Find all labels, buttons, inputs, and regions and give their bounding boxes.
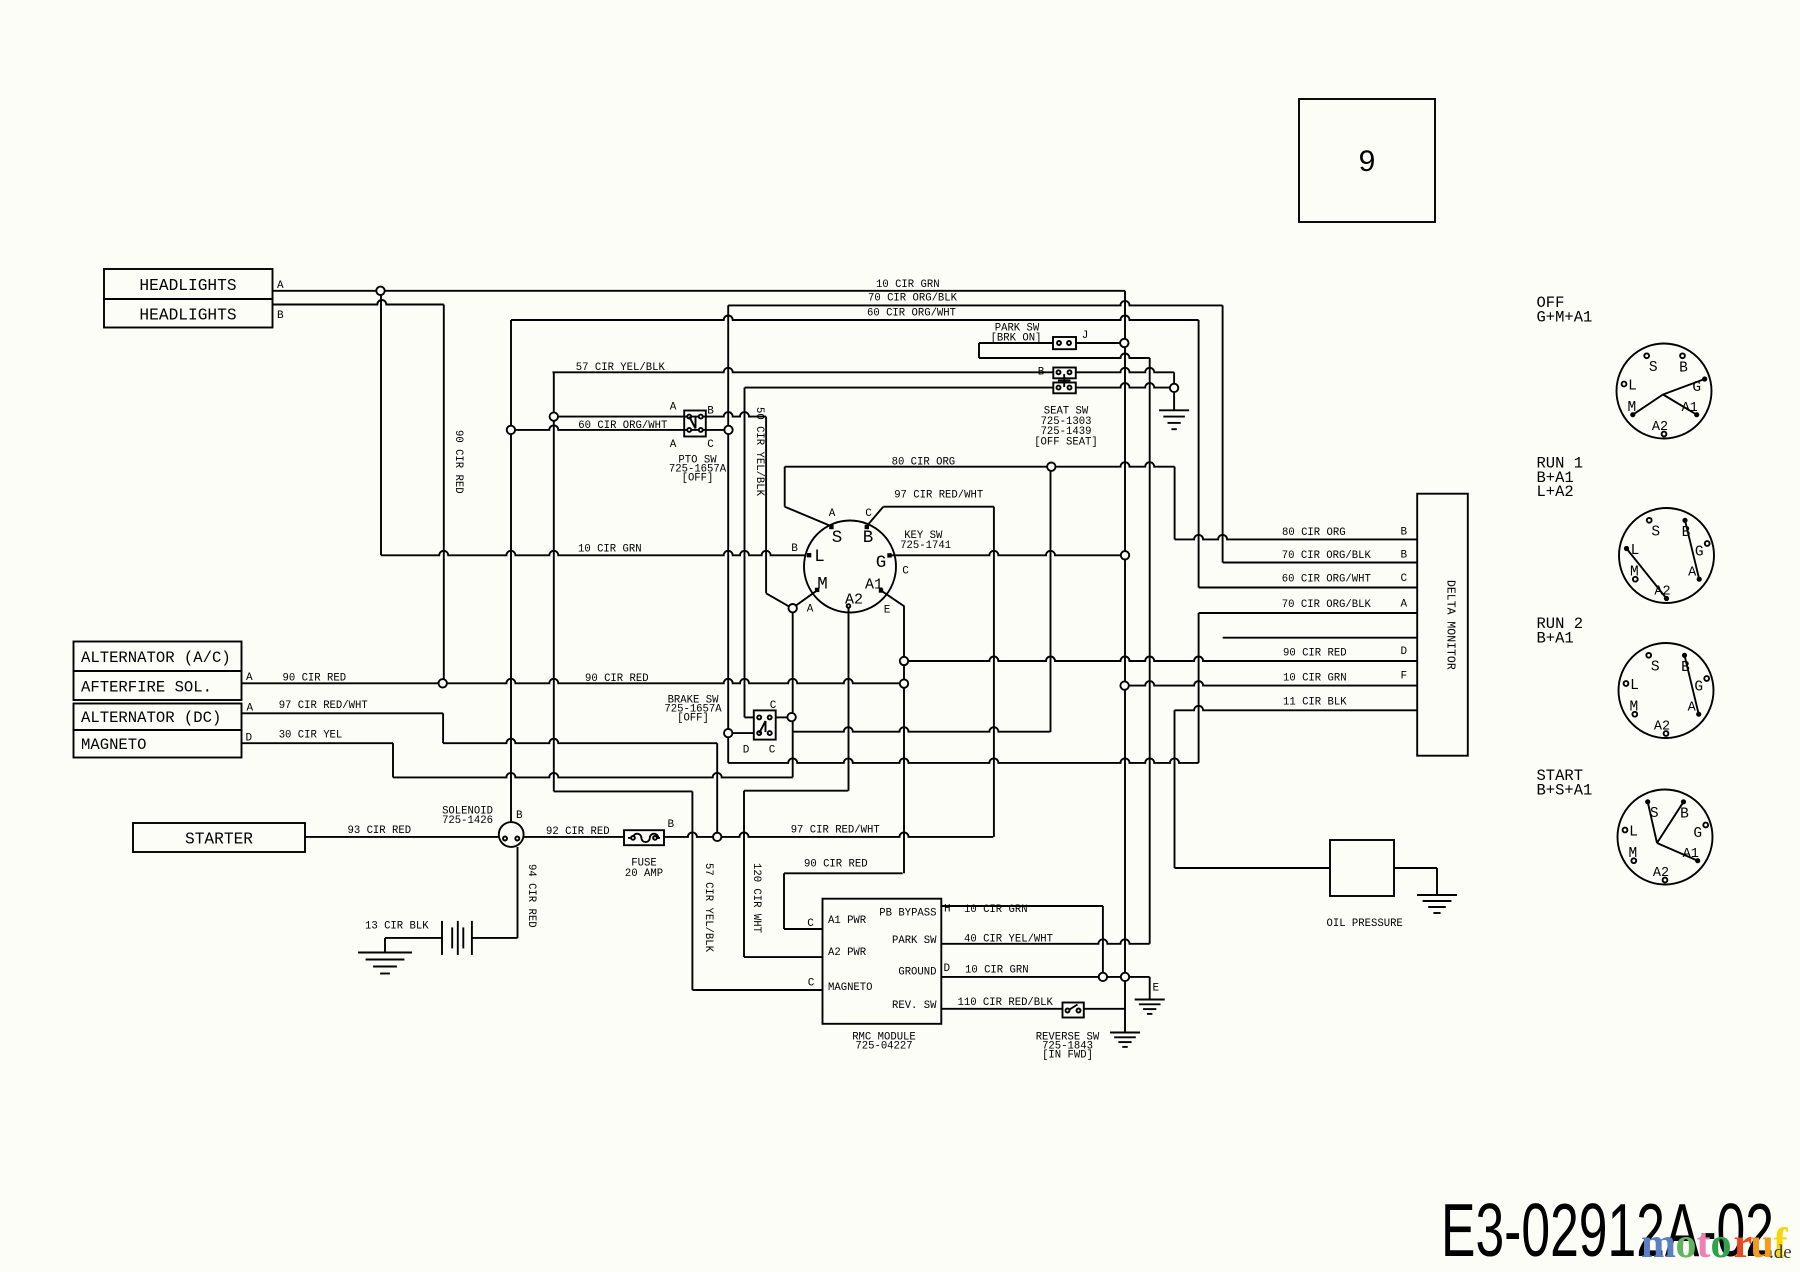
svg-text:D: D bbox=[743, 745, 750, 757]
svg-text:F: F bbox=[1401, 671, 1408, 683]
svg-text:C: C bbox=[769, 745, 776, 757]
svg-text:C: C bbox=[902, 566, 909, 578]
svg-text:11 CIR BLK: 11 CIR BLK bbox=[1283, 697, 1347, 709]
svg-text:S: S bbox=[1650, 806, 1659, 822]
svg-text:90 CIR RED: 90 CIR RED bbox=[283, 673, 347, 685]
svg-text:97 CIR RED/WHT: 97 CIR RED/WHT bbox=[894, 490, 983, 502]
svg-text:A: A bbox=[277, 280, 284, 292]
svg-text:725-1741: 725-1741 bbox=[900, 540, 951, 552]
svg-text:80 CIR ORG: 80 CIR ORG bbox=[1282, 527, 1346, 539]
svg-text:50 CIR YEL/BLK: 50 CIR YEL/BLK bbox=[753, 407, 765, 497]
svg-text:A2: A2 bbox=[1654, 720, 1670, 735]
svg-text:A: A bbox=[247, 703, 254, 715]
svg-text:L+A2: L+A2 bbox=[1537, 483, 1574, 501]
svg-text:40 CIR YEL/WHT: 40 CIR YEL/WHT bbox=[964, 934, 1053, 946]
svg-text:C: C bbox=[807, 918, 814, 930]
svg-text:AFTERFIRE SOL.: AFTERFIRE SOL. bbox=[81, 679, 212, 697]
svg-text:o: o bbox=[1711, 1221, 1732, 1267]
svg-text:L: L bbox=[814, 547, 825, 567]
svg-text:DELTA MONITOR: DELTA MONITOR bbox=[1444, 580, 1457, 670]
svg-text:120 CIR WHT: 120 CIR WHT bbox=[750, 863, 762, 933]
svg-text:B: B bbox=[277, 310, 284, 322]
svg-text:M: M bbox=[1629, 700, 1638, 716]
svg-text:HEADLIGHTS: HEADLIGHTS bbox=[139, 307, 236, 325]
svg-text:57 CIR YEL/BLK: 57 CIR YEL/BLK bbox=[576, 362, 666, 374]
svg-text:M: M bbox=[1630, 565, 1639, 581]
svg-text:B: B bbox=[1682, 525, 1691, 541]
svg-text:60 CIR ORG/WHT: 60 CIR ORG/WHT bbox=[1282, 574, 1371, 586]
svg-text:B: B bbox=[1401, 550, 1408, 562]
svg-text:A1: A1 bbox=[865, 577, 883, 594]
svg-text:r: r bbox=[1734, 1221, 1753, 1267]
svg-text:S: S bbox=[1651, 659, 1660, 675]
svg-text:GROUND: GROUND bbox=[898, 967, 936, 979]
svg-text:[OFF SEAT]: [OFF SEAT] bbox=[1034, 437, 1098, 449]
svg-text:97 CIR RED/WHT: 97 CIR RED/WHT bbox=[791, 825, 880, 837]
svg-text:G: G bbox=[1692, 380, 1701, 396]
svg-text:t: t bbox=[1697, 1221, 1711, 1267]
svg-text:60 CIR ORG/WHT: 60 CIR ORG/WHT bbox=[867, 308, 956, 320]
svg-text:[OFF]: [OFF] bbox=[682, 473, 714, 485]
svg-text:PARK SW: PARK SW bbox=[892, 935, 937, 947]
svg-text:G: G bbox=[876, 553, 887, 573]
svg-text:A1 PWR: A1 PWR bbox=[828, 915, 867, 927]
svg-text:C: C bbox=[808, 978, 815, 990]
svg-text:o: o bbox=[1676, 1221, 1697, 1267]
svg-text:L: L bbox=[1629, 825, 1638, 841]
svg-text:10 CIR GRN: 10 CIR GRN bbox=[964, 904, 1028, 916]
svg-text:A: A bbox=[670, 402, 677, 414]
svg-text:S: S bbox=[1651, 524, 1660, 540]
svg-text:[IN FWD]: [IN FWD] bbox=[1042, 1050, 1093, 1062]
svg-text:E: E bbox=[884, 605, 891, 617]
svg-text:13 CIR BLK: 13 CIR BLK bbox=[365, 921, 429, 933]
svg-text:90 CIR RED: 90 CIR RED bbox=[804, 859, 868, 871]
svg-text:110 CIR RED/BLK: 110 CIR RED/BLK bbox=[958, 997, 1054, 1009]
svg-text:A: A bbox=[829, 508, 836, 520]
svg-text:94 CIR RED: 94 CIR RED bbox=[525, 864, 537, 928]
svg-text:S: S bbox=[832, 528, 843, 548]
svg-text:S: S bbox=[1649, 360, 1658, 376]
svg-text:OIL PRESSURE: OIL PRESSURE bbox=[1327, 918, 1403, 930]
svg-text:A1: A1 bbox=[1682, 401, 1698, 416]
svg-text:725-04227: 725-04227 bbox=[855, 1041, 912, 1053]
svg-text:H: H bbox=[944, 904, 951, 916]
svg-text:B: B bbox=[516, 810, 523, 822]
svg-text:ALTERNATOR (DC): ALTERNATOR (DC) bbox=[81, 709, 221, 727]
svg-text:B: B bbox=[791, 543, 798, 555]
svg-text:725-1426: 725-1426 bbox=[442, 815, 493, 827]
svg-text:G: G bbox=[1694, 680, 1703, 696]
svg-text:L: L bbox=[1630, 678, 1639, 694]
svg-text:93 CIR RED: 93 CIR RED bbox=[348, 825, 412, 837]
svg-text:E: E bbox=[1153, 983, 1160, 995]
svg-text:G: G bbox=[1693, 826, 1702, 842]
svg-text:B: B bbox=[1681, 660, 1690, 676]
svg-text:PB BYPASS: PB BYPASS bbox=[879, 908, 936, 920]
svg-text:A: A bbox=[670, 439, 677, 451]
svg-text:G+M+A1: G+M+A1 bbox=[1537, 309, 1593, 327]
svg-text:60 CIR ORG/WHT: 60 CIR ORG/WHT bbox=[578, 420, 667, 432]
svg-text:REV. SW: REV. SW bbox=[892, 1000, 937, 1012]
svg-text:A: A bbox=[246, 672, 253, 684]
svg-text:B+A1: B+A1 bbox=[1537, 630, 1574, 648]
svg-text:A: A bbox=[807, 604, 814, 616]
svg-text:30 CIR YEL: 30 CIR YEL bbox=[279, 730, 343, 742]
svg-text:10 CIR GRN: 10 CIR GRN bbox=[578, 544, 642, 556]
svg-text:MAGNETO: MAGNETO bbox=[81, 736, 147, 754]
svg-text:A2: A2 bbox=[1654, 585, 1670, 600]
svg-text:B: B bbox=[1401, 527, 1408, 539]
svg-text:C: C bbox=[865, 508, 872, 520]
svg-text:G: G bbox=[1695, 545, 1704, 561]
svg-text:m: m bbox=[1641, 1221, 1676, 1267]
svg-text:B: B bbox=[668, 819, 675, 831]
svg-text:C: C bbox=[1401, 573, 1408, 585]
svg-text:B+S+A1: B+S+A1 bbox=[1537, 782, 1593, 800]
svg-text:[BRK ON]: [BRK ON] bbox=[991, 333, 1042, 345]
svg-text:A2: A2 bbox=[845, 592, 863, 609]
svg-text:B: B bbox=[1680, 806, 1689, 822]
svg-text:92 CIR RED: 92 CIR RED bbox=[546, 826, 610, 838]
svg-text:A2: A2 bbox=[1653, 866, 1669, 881]
svg-text:70 CIR ORG/BLK: 70 CIR ORG/BLK bbox=[868, 293, 958, 305]
svg-text:J: J bbox=[1082, 330, 1089, 342]
svg-text:[OFF]: [OFF] bbox=[677, 713, 709, 725]
svg-text:B: B bbox=[1038, 367, 1045, 379]
svg-text:A: A bbox=[1688, 566, 1697, 581]
svg-text:M: M bbox=[1628, 846, 1637, 862]
svg-text:57 CIR YEL/BLK: 57 CIR YEL/BLK bbox=[702, 863, 714, 953]
svg-text:D: D bbox=[1401, 646, 1408, 658]
svg-text:A2: A2 bbox=[1652, 420, 1668, 435]
svg-text:D: D bbox=[246, 733, 253, 745]
svg-text:C: C bbox=[770, 700, 777, 712]
svg-text:A: A bbox=[1401, 599, 1408, 611]
svg-text:90 CIR RED: 90 CIR RED bbox=[585, 673, 649, 685]
svg-text:STARTER: STARTER bbox=[185, 831, 253, 849]
svg-text:10 CIR GRN: 10 CIR GRN bbox=[965, 965, 1029, 977]
svg-text:97 CIR RED/WHT: 97 CIR RED/WHT bbox=[279, 700, 368, 712]
svg-text:70 CIR ORG/BLK: 70 CIR ORG/BLK bbox=[1282, 550, 1372, 562]
svg-text:.de: .de bbox=[1769, 1242, 1792, 1263]
svg-text:10 CIR GRN: 10 CIR GRN bbox=[876, 279, 940, 291]
svg-text:90 CIR RED: 90 CIR RED bbox=[1283, 648, 1347, 660]
svg-text:M: M bbox=[817, 575, 828, 595]
svg-text:70 CIR ORG/BLK: 70 CIR ORG/BLK bbox=[1282, 599, 1372, 611]
svg-text:A: A bbox=[1688, 701, 1697, 716]
svg-text:B: B bbox=[863, 528, 874, 548]
svg-text:B: B bbox=[1679, 360, 1688, 376]
svg-text:9: 9 bbox=[1359, 145, 1376, 178]
svg-text:D: D bbox=[944, 963, 951, 975]
svg-text:A1: A1 bbox=[1683, 847, 1699, 862]
svg-text:ALTERNATOR (A/C): ALTERNATOR (A/C) bbox=[81, 649, 231, 667]
svg-text:B: B bbox=[707, 406, 714, 418]
svg-text:MAGNETO: MAGNETO bbox=[828, 982, 873, 994]
svg-text:90 CIR RED: 90 CIR RED bbox=[452, 430, 464, 494]
svg-text:A2 PWR: A2 PWR bbox=[828, 947, 867, 959]
svg-text:HEADLIGHTS: HEADLIGHTS bbox=[139, 277, 236, 295]
svg-text:M: M bbox=[1627, 400, 1636, 416]
svg-text:20 AMP: 20 AMP bbox=[625, 868, 663, 880]
svg-text:10 CIR GRN: 10 CIR GRN bbox=[1283, 673, 1347, 685]
svg-text:C: C bbox=[707, 439, 714, 451]
svg-text:L: L bbox=[1631, 543, 1640, 559]
svg-text:L: L bbox=[1628, 379, 1637, 395]
svg-text:80 CIR ORG: 80 CIR ORG bbox=[892, 457, 956, 469]
